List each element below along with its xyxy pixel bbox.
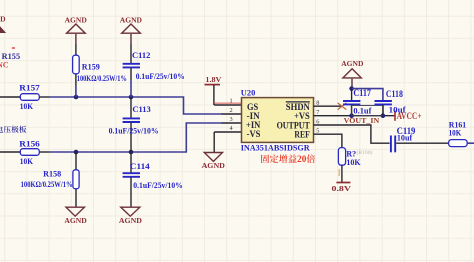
svg-text:-VS: -VS: [247, 129, 261, 139]
svg-text:C112: C112: [132, 50, 150, 60]
svg-text:10K: 10K: [346, 158, 361, 167]
svg-text:AGND: AGND: [64, 216, 87, 225]
pin 4 wire: [214, 131, 241, 133]
resistor R158: [21, 152, 80, 207]
pin 2 stub: [222, 113, 242, 115]
pin 6 wire to C119: [314, 125, 390, 143]
svg-text:10K: 10K: [20, 157, 34, 166]
svg-text:2: 2: [230, 107, 233, 114]
svg-text:1: 1: [230, 98, 233, 105]
svg-text:C117: C117: [353, 88, 371, 98]
svg-text:100KΩ/0.25W/1%: 100KΩ/0.25W/1%: [21, 180, 73, 189]
svg-text:AGND: AGND: [341, 59, 364, 68]
svg-text:INA351ABSIDSGR: INA351ABSIDSGR: [241, 144, 311, 153]
svg-text:10K: 10K: [449, 127, 462, 137]
svg-text:R157: R157: [19, 84, 40, 93]
junction row1/R159: [74, 95, 79, 100]
junction pin7/C118: [381, 113, 386, 118]
svg-text:AGND: AGND: [202, 161, 226, 170]
capacitor C114: [123, 152, 183, 207]
resistor R161: [449, 119, 474, 146]
junction row2/C113: [129, 150, 134, 155]
resistor R159: [73, 44, 127, 86]
red ERC line on pin 1: [214, 102, 241, 104]
svg-text:10uf: 10uf: [397, 134, 413, 143]
svg-text:AGND: AGND: [119, 216, 143, 225]
wire R159 to row1: [75, 86, 77, 97]
pin 5 wire to R?: [314, 134, 342, 148]
pin 3 stub: [222, 122, 242, 124]
svg-text:10uf: 10uf: [389, 105, 406, 114]
pin 1 wire: [214, 104, 241, 106]
svg-text:NC: NC: [0, 61, 9, 70]
ERC tick near R155: [12, 47, 15, 49]
op-amp U20 body: [241, 88, 314, 143]
capacitor C112: [123, 44, 185, 81]
capacitor C119: [391, 126, 416, 152]
svg-text:R158: R158: [43, 170, 61, 179]
wire row2 mid: [50, 123, 223, 152]
svg-text:U20: U20: [241, 88, 256, 98]
svg-text:AGND: AGND: [0, 15, 6, 24]
AGND above C117: [341, 59, 364, 88]
junction pin7/C117: [349, 113, 354, 118]
note 固定增益20倍: [261, 154, 315, 164]
AGND below R158: [64, 207, 87, 225]
AGND below C114: [119, 207, 143, 225]
AGND above C112: [120, 16, 143, 44]
svg-text:C118: C118: [386, 89, 403, 99]
junction row1/C112: [129, 95, 134, 100]
svg-text:REF: REF: [294, 129, 310, 139]
capacitor C113: [109, 97, 159, 152]
wire C117 top to C118 top: [352, 89, 383, 101]
junction row2/R158: [74, 150, 79, 155]
svg-text:(R160): (R160): [357, 149, 373, 156]
capacitor C117: [343, 88, 383, 116]
svg-text:VOUT_IN: VOUT_IN: [344, 116, 380, 125]
svg-text:3: 3: [230, 116, 233, 123]
svg-text:R156: R156: [19, 140, 40, 149]
svg-text:100KΩ/0.25W/1%: 100KΩ/0.25W/1%: [77, 74, 127, 83]
svg-text:1.8V: 1.8V: [205, 75, 222, 84]
svg-text:0.1uF/25v/10%: 0.1uF/25v/10%: [109, 126, 159, 135]
0.8V power port: [332, 183, 352, 194]
resistor R?: [338, 148, 361, 182]
capacitor C118: [375, 89, 406, 116]
pin 7 wire to AVCC: [314, 115, 395, 117]
svg-text:0.1uF/25v/10%: 0.1uF/25v/10%: [133, 181, 183, 190]
wire C112 to row1: [130, 80, 132, 97]
wire C119 to R161: [396, 142, 449, 144]
svg-text:0.1uF/25v/10%: 0.1uF/25v/10%: [136, 72, 185, 81]
net label 压极板 (cut off): [0, 126, 26, 133]
svg-text:20: 20: [297, 154, 307, 164]
pin 8 stub with no-ERC cross: [314, 103, 347, 110]
resistor R156: [0, 140, 50, 166]
AGND fragment top-left (cut off): [0, 15, 6, 33]
svg-text:C113: C113: [132, 104, 150, 114]
AGND above R159: [65, 16, 88, 44]
AGND below pin 4: [202, 132, 226, 170]
1.8V power port: [205, 75, 223, 105]
svg-text:C114: C114: [130, 161, 151, 171]
wire row1 mid: [50, 97, 223, 114]
AVCC+ power port: [395, 111, 422, 122]
svg-text:10K: 10K: [20, 102, 34, 111]
svg-text:0.1uf: 0.1uf: [353, 107, 371, 116]
svg-text:0.8V: 0.8V: [332, 184, 352, 193]
resistor R157: [0, 84, 50, 112]
junction AGND/C117/C118: [349, 86, 354, 91]
svg-text:R159: R159: [82, 63, 100, 72]
